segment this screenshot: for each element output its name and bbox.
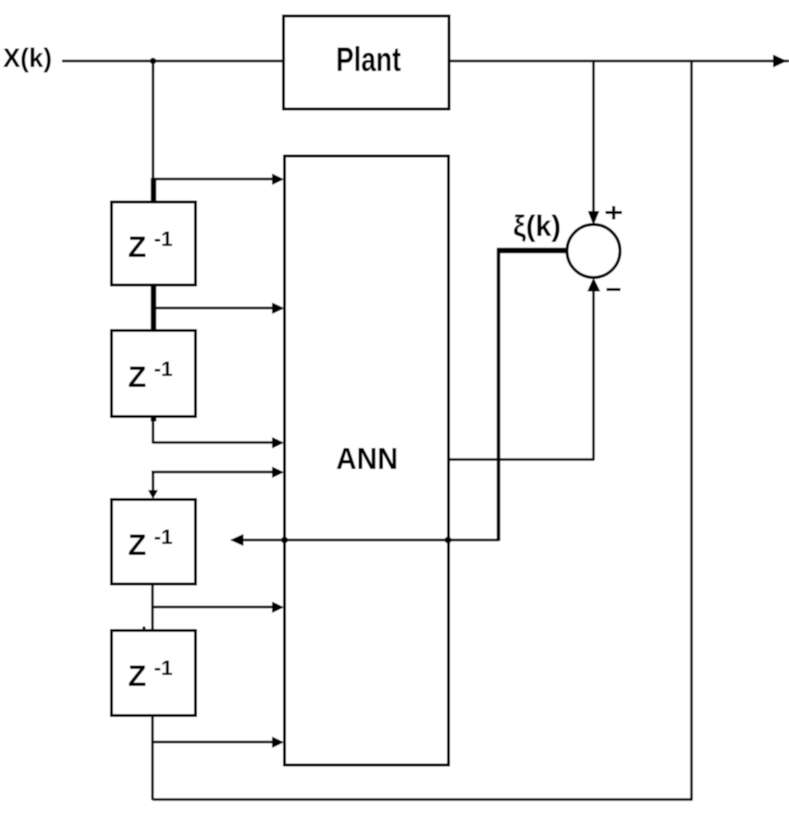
wire: below Z4 down to bottom	[151, 715, 154, 800]
wire: ANN output to summer	[449, 458, 595, 461]
svg-text:-1: -1	[154, 228, 173, 251]
wire: thick stub below Z2	[151, 416, 157, 422]
wire: thick Z1 to Z2	[151, 284, 157, 332]
svg-text:-1: -1	[154, 358, 173, 381]
svg-text:Z: Z	[128, 361, 146, 394]
wire: Z2 down	[152, 416, 155, 444]
wire: error horizontal left through ANN	[242, 539, 499, 542]
svg-text:-1: -1	[154, 526, 173, 549]
arrowhead: error arrow pointing left	[230, 534, 244, 546]
wire: tap3 into ANN	[153, 441, 273, 444]
label minus sign	[607, 288, 621, 291]
block Z2 delay	[112, 331, 196, 417]
arrowhead: tap6	[272, 737, 284, 749]
label plus sign	[606, 206, 623, 220]
wire: branch down to summing junction	[592, 61, 595, 213]
wire: summer bottom stem down	[592, 290, 595, 460]
arrowhead: tap3	[272, 437, 284, 449]
wire: right feedback vertical	[690, 61, 693, 800]
summing junction circle	[567, 225, 620, 278]
arrowhead: tap4	[272, 467, 284, 479]
svg-text:Z: Z	[128, 660, 146, 693]
node: junction error line at ANN left edge	[281, 537, 288, 544]
node: junction X(k) branch	[150, 58, 156, 64]
wire: tap5 into ANN	[153, 606, 273, 609]
wire: down into Z3	[152, 472, 155, 492]
wire: error vertical down	[497, 248, 501, 541]
artifact nub on Z4 top edge	[143, 627, 146, 632]
wire: tap2 into ANN	[153, 307, 273, 310]
block Z1 delay	[112, 202, 196, 285]
arrowhead: tap2	[272, 303, 285, 315]
svg-text:-1: -1	[154, 657, 173, 680]
svg-text:ξ(k): ξ(k)	[513, 210, 561, 243]
wire: tap6 into ANN	[153, 741, 274, 744]
svg-text:Plant: Plant	[336, 41, 401, 79]
wire: tap4 into ANN	[152, 471, 274, 474]
node: junction error line at ANN right edge	[445, 537, 452, 544]
arrowhead: tap5	[272, 602, 284, 614]
wire: branch down from X(k) line	[152, 61, 155, 180]
svg-text:Z: Z	[128, 231, 146, 264]
wire: X(k) to Plant input	[62, 60, 284, 63]
block ANN	[285, 156, 449, 765]
arrowhead: tap1	[272, 174, 284, 186]
wire: tap1 into ANN	[153, 178, 273, 181]
block Z3 delay	[112, 500, 196, 585]
wire: thick into Z1	[151, 178, 157, 204]
arrowhead: into summer bottom (minus input)	[587, 278, 600, 292]
block Plant	[284, 16, 450, 109]
arrowhead: into summer top (plus input)	[588, 211, 600, 226]
wire: Z3 to Z4	[151, 584, 154, 631]
svg-text:Z: Z	[128, 529, 146, 562]
svg-text:X(k): X(k)	[3, 43, 52, 73]
arrowhead: into Z3 top	[148, 490, 158, 499]
wire: bottom feedback line	[153, 798, 693, 801]
arrowhead: output arrow right	[773, 55, 787, 68]
block Z4 delay	[112, 631, 196, 716]
svg-text:ANN: ANN	[336, 441, 398, 476]
wire: Plant output line	[449, 60, 789, 63]
wire: error thick line from summer left	[497, 248, 568, 254]
